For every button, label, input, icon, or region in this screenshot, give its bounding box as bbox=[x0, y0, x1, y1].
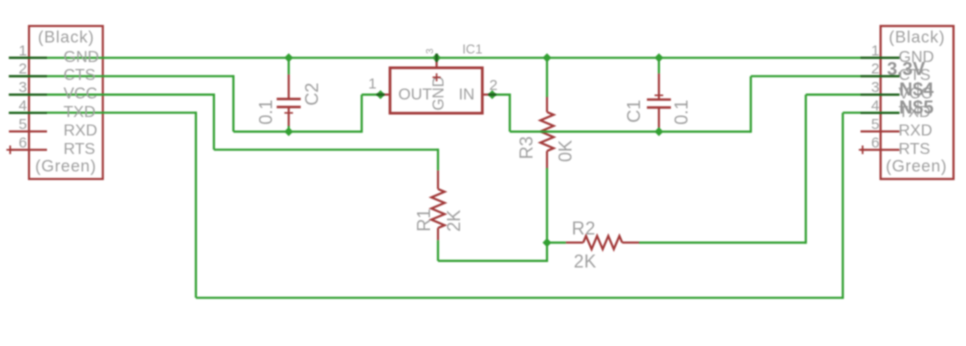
svg-text:IC1: IC1 bbox=[462, 42, 482, 57]
svg-text:3: 3 bbox=[871, 79, 879, 96]
svg-text:6: 6 bbox=[871, 134, 879, 151]
svg-text:RTS: RTS bbox=[899, 141, 931, 158]
svg-text:IN: IN bbox=[459, 86, 475, 103]
svg-text:1: 1 bbox=[19, 42, 27, 59]
svg-text:1: 1 bbox=[871, 42, 879, 59]
svg-text:OUT: OUT bbox=[398, 86, 432, 103]
svg-text:TXD: TXD bbox=[64, 104, 96, 121]
svg-text:2K: 2K bbox=[444, 210, 464, 232]
svg-text:5: 5 bbox=[19, 116, 27, 133]
svg-text:0.1: 0.1 bbox=[672, 100, 692, 125]
svg-text:GND: GND bbox=[431, 76, 448, 110]
svg-text:5: 5 bbox=[871, 116, 879, 133]
svg-text:R3: R3 bbox=[517, 136, 537, 159]
svg-text:(Green): (Green) bbox=[886, 158, 947, 176]
svg-text:RXD: RXD bbox=[64, 122, 98, 139]
svg-text:3: 3 bbox=[425, 48, 436, 54]
svg-text:4: 4 bbox=[871, 98, 879, 115]
svg-text:C1: C1 bbox=[624, 100, 644, 123]
svg-text:(Green): (Green) bbox=[35, 158, 96, 176]
svg-text:2: 2 bbox=[489, 77, 497, 94]
svg-text:GND: GND bbox=[64, 49, 100, 66]
svg-text:(Black): (Black) bbox=[889, 28, 946, 46]
svg-text:2: 2 bbox=[19, 61, 27, 78]
svg-text:2: 2 bbox=[871, 61, 879, 78]
svg-text:C2: C2 bbox=[302, 83, 322, 106]
svg-text:3: 3 bbox=[19, 79, 27, 96]
svg-text:(Black): (Black) bbox=[38, 28, 95, 46]
svg-text:R2: R2 bbox=[572, 219, 596, 239]
svg-text:4: 4 bbox=[19, 98, 27, 115]
svg-text:0K: 0K bbox=[556, 140, 576, 162]
svg-text:N$5: N$5 bbox=[899, 96, 934, 117]
svg-text:CTS: CTS bbox=[64, 67, 96, 84]
svg-text:2K: 2K bbox=[574, 252, 597, 272]
svg-text:RTS: RTS bbox=[64, 141, 96, 158]
svg-text:VCC: VCC bbox=[64, 86, 98, 103]
svg-text:R1: R1 bbox=[414, 209, 434, 232]
svg-text:1: 1 bbox=[368, 76, 376, 93]
svg-text:0.1: 0.1 bbox=[256, 100, 276, 125]
svg-text:6: 6 bbox=[19, 134, 27, 151]
svg-text:RXD: RXD bbox=[899, 122, 933, 139]
svg-text:3.3V: 3.3V bbox=[887, 58, 926, 79]
